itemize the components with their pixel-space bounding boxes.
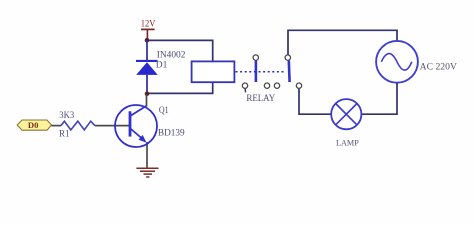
wire resistor to base xyxy=(95,125,129,127)
power 12V xyxy=(141,19,156,40)
wire collector xyxy=(146,94,148,107)
diode D1 xyxy=(136,50,186,75)
relay coil xyxy=(192,61,235,82)
wire diode top xyxy=(146,40,148,61)
relay contact 2 xyxy=(274,55,301,89)
svg-text:Q1: Q1 xyxy=(159,106,169,116)
svg-text:LAMP: LAMP xyxy=(336,138,359,148)
wire contact2 to AC top xyxy=(288,30,397,55)
wire top rail to relay xyxy=(147,40,213,61)
resistor R1 xyxy=(59,111,95,139)
lamp xyxy=(331,99,361,129)
svg-text:3K3: 3K3 xyxy=(59,111,74,121)
svg-text:IN4002: IN4002 xyxy=(157,50,186,60)
ground xyxy=(136,168,158,177)
wire lamp to contact2 xyxy=(299,89,331,115)
wire diode bottom xyxy=(146,75,148,94)
wire port to resistor xyxy=(52,125,62,127)
dashed actuator link xyxy=(236,71,286,73)
junction top xyxy=(145,38,150,43)
junction bottom xyxy=(145,91,150,96)
transistor Q1 xyxy=(115,105,185,147)
port D0 xyxy=(17,120,51,130)
svg-text:BD139: BD139 xyxy=(158,128,185,138)
svg-text:RELAY: RELAY xyxy=(246,94,275,104)
svg-text:AC 220V: AC 220V xyxy=(420,63,458,73)
svg-text:D0: D0 xyxy=(28,120,39,130)
svg-text:12V: 12V xyxy=(141,19,156,29)
wire AC bottom to lamp xyxy=(362,83,398,115)
svg-text:R1: R1 xyxy=(59,129,70,139)
wire emitter to ground xyxy=(146,142,148,168)
wire bottom rail to relay xyxy=(147,82,213,93)
svg-text:D1: D1 xyxy=(156,61,168,71)
AC source xyxy=(376,41,418,83)
relay contact 1 xyxy=(242,55,269,93)
